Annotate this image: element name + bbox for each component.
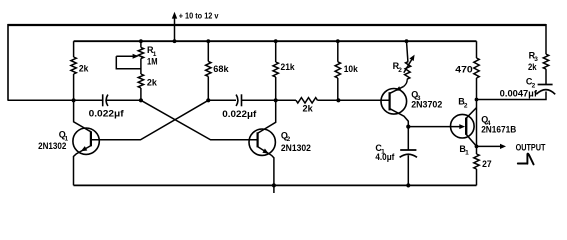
svg-text:2N1302: 2N1302 bbox=[38, 141, 66, 151]
svg-text:4.0μf: 4.0μf bbox=[375, 152, 395, 162]
svg-text:2: 2 bbox=[398, 67, 402, 74]
svg-text:0.0047μf: 0.0047μf bbox=[500, 88, 538, 98]
svg-text:10k: 10k bbox=[344, 64, 359, 74]
svg-text:2k: 2k bbox=[147, 78, 158, 88]
svg-text:2k: 2k bbox=[528, 62, 537, 72]
svg-text:2k: 2k bbox=[303, 104, 314, 114]
svg-text:0.022μf: 0.022μf bbox=[89, 108, 125, 118]
svg-text:1M: 1M bbox=[147, 56, 158, 66]
svg-text:21k: 21k bbox=[281, 62, 296, 72]
svg-text:OUTPUT: OUTPUT bbox=[516, 143, 546, 153]
svg-text:2N1671B: 2N1671B bbox=[481, 125, 516, 135]
svg-text:0.022μf: 0.022μf bbox=[222, 109, 257, 119]
svg-text:+ 10 to 12 v: + 10 to 12 v bbox=[179, 12, 219, 21]
svg-text:2N1302: 2N1302 bbox=[281, 143, 311, 153]
svg-text:68k: 68k bbox=[213, 64, 229, 74]
svg-text:2N3702: 2N3702 bbox=[411, 99, 442, 109]
svg-text:27: 27 bbox=[482, 159, 492, 169]
svg-text:1: 1 bbox=[465, 150, 469, 157]
svg-text:470: 470 bbox=[455, 64, 472, 74]
svg-text:2: 2 bbox=[464, 102, 468, 109]
svg-text:2k: 2k bbox=[79, 64, 89, 74]
